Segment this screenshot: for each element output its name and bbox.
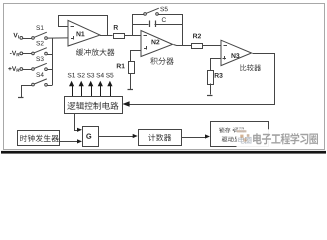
wire N2 feedback right vertical (182, 14, 184, 45)
arrowhead into logic control box (122, 101, 129, 107)
node VI input terminal (13, 33, 22, 39)
switch S3 (32, 63, 48, 70)
bottom black bar (1, 151, 326, 154)
op-amp N3 comparator (221, 40, 252, 65)
control line arrow S3 (87, 73, 94, 96)
switch S2 (32, 48, 48, 55)
wire clock generator to gate G (59, 141, 78, 143)
latch decode drive display box 锁存·译码 驱动显示器 (211, 122, 269, 147)
wire N2 feedback left vertical (132, 14, 134, 36)
gate G box (83, 127, 99, 147)
arrowhead into G bottom input (77, 139, 82, 143)
wire S5 feedback top rung (132, 14, 183, 16)
wire counter to latch (181, 137, 205, 139)
wire S2 to bus (48, 54, 53, 56)
node -VR input terminal (10, 51, 23, 57)
resistor R3 (208, 71, 223, 85)
wire input bus vertical (52, 38, 54, 85)
ground under S4 (18, 86, 33, 98)
wire N2 plus input to R1 (131, 51, 142, 62)
resistor R (114, 25, 125, 39)
control line arrow S2 (77, 73, 84, 96)
wire R to N2 minus input (124, 35, 141, 37)
op-amp N2 integrator (141, 31, 173, 57)
wire R1 to ground (130, 73, 132, 89)
wire logic control to gate G (75, 114, 78, 131)
wire VI to S1 (23, 38, 32, 40)
wire S4 to bus (48, 85, 53, 87)
resistor R2 (192, 34, 203, 49)
control line arrow S5 (106, 73, 113, 96)
resistor R1 (117, 62, 135, 74)
ground under R3 (207, 95, 213, 97)
wire N3 output to logic control (130, 54, 275, 105)
wire N1 feedback loop (59, 16, 108, 36)
arrowhead into counter (133, 134, 138, 138)
counter box 计数器 (139, 130, 182, 146)
arrowhead into G top input (77, 128, 82, 132)
switch S4 (32, 79, 48, 86)
wire N1 output to R (100, 35, 113, 37)
wire +VR to S3 (23, 69, 32, 71)
label integrator 积分器 (150, 57, 174, 64)
label comparator 比较器 (240, 64, 261, 71)
label buffer amplifier 缓冲放大器 (76, 49, 115, 56)
ground under R1 (128, 89, 134, 91)
clock generator box 时钟发生器 (18, 131, 60, 146)
wire R2 to N3 minus input (203, 45, 221, 47)
logic control circuit box 逻辑控制电路 (65, 97, 123, 114)
node +VR input terminal (8, 66, 22, 72)
control line arrow S1 (68, 73, 75, 96)
switch S5 (144, 8, 159, 15)
wire N2 output to R2 (174, 45, 192, 46)
switch S1 (32, 32, 48, 39)
wire S3 to bus (48, 69, 53, 71)
wire -VR to S2 (23, 53, 32, 55)
wire S1 to N1 plus input (47, 37, 68, 39)
op-amp N1 buffer (68, 20, 100, 46)
watermark logo and text 电子工程学习圈 (237, 129, 320, 147)
capacitor C (132, 21, 183, 28)
arrowhead into latch box (205, 134, 210, 138)
wire R3 to ground (210, 84, 212, 95)
control line arrow S4 (96, 73, 104, 96)
wire N3 plus input to R3 (211, 59, 222, 71)
wire gate G to counter (98, 136, 133, 138)
